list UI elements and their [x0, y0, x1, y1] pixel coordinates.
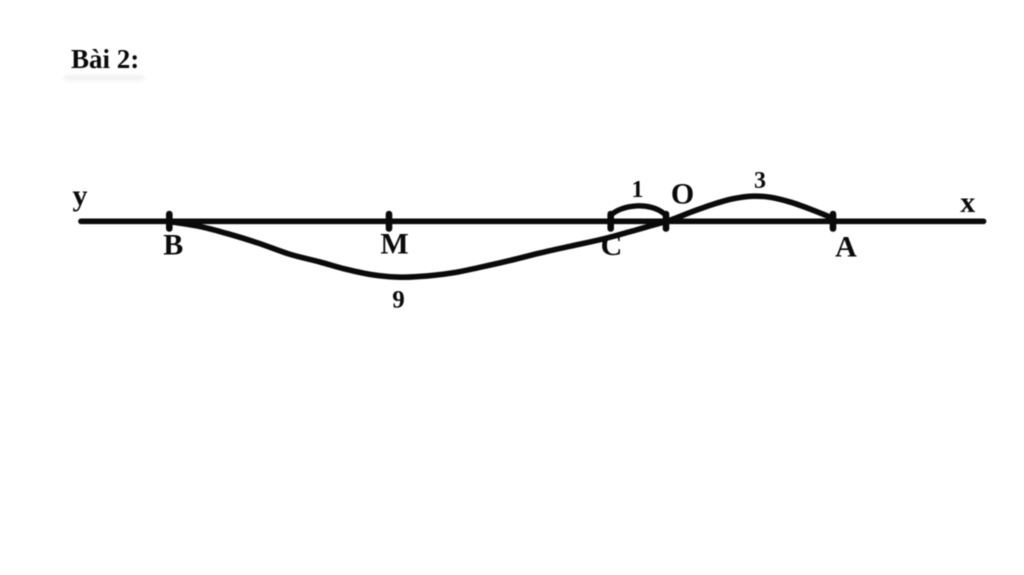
- svg-text:B: B: [163, 228, 183, 261]
- svg-text:Bài 2:: Bài 2:: [71, 44, 139, 74]
- svg-text:1: 1: [632, 177, 644, 203]
- svg-text:y: y: [73, 179, 88, 212]
- svg-text:x: x: [960, 186, 975, 219]
- svg-text:O: O: [671, 178, 694, 211]
- svg-text:M: M: [380, 228, 408, 261]
- tick O: [663, 214, 670, 229]
- faint smudge under title: [64, 76, 144, 81]
- svg-text:3: 3: [754, 168, 766, 194]
- number line xy: [81, 218, 984, 224]
- big curve from B dipping below line, crossing at O, arcing over to A: [172, 196, 832, 277]
- tick B: [166, 214, 173, 229]
- tick M: [386, 214, 393, 229]
- svg-text:9: 9: [392, 286, 405, 313]
- svg-text:A: A: [835, 230, 857, 263]
- tick C: [607, 214, 614, 229]
- tick A: [830, 214, 837, 229]
- small arc from C to O: [611, 206, 665, 216]
